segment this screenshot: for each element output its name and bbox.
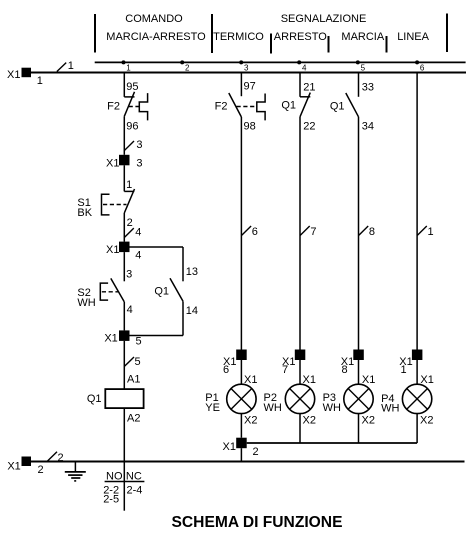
svg-text:Q1: Q1 [330,101,345,113]
header separator bar 6 [446,14,448,53]
svg-text:2: 2 [253,446,259,458]
wire [299,413,301,443]
svg-text:3: 3 [136,139,142,151]
lamp P4 WH [402,384,431,413]
pushbutton S1 (NC, BK) [124,190,134,192]
bus junction dot 1 [122,60,126,64]
wire [358,73,360,97]
wire coil to bottom line [123,408,125,461]
svg-text:2: 2 [127,217,133,229]
bus junction dot 4 [297,60,301,64]
wire [123,165,125,191]
svg-text:8: 8 [342,364,348,376]
svg-text:X2: X2 [420,414,433,426]
svg-text:3: 3 [136,157,142,169]
terminal X1:6 [236,350,247,361]
svg-text:1: 1 [37,75,43,87]
header separator bar 5 [386,36,388,53]
svg-text:4: 4 [135,227,141,239]
wire [240,413,242,438]
wire number slash 8 [359,226,369,235]
wire number slash 6 [242,226,252,235]
svg-text:X1: X1 [106,157,119,169]
svg-text:X2: X2 [362,414,375,426]
svg-text:SCHEMA DI FUNZIONE: SCHEMA DI FUNZIONE [172,514,343,531]
wire [299,360,301,385]
svg-text:Q1: Q1 [281,100,296,112]
lamp return connector line [247,442,417,444]
svg-text:SEGNALAZIONE: SEGNALAZIONE [281,13,367,25]
svg-text:2: 2 [58,452,64,464]
svg-text:3: 3 [126,269,132,281]
svg-text:5: 5 [136,336,142,348]
bus junction dot 3 [239,60,243,64]
svg-text:X2: X2 [244,414,257,426]
S1 actuator bracket [102,194,110,215]
wire [299,73,301,97]
bus line top [95,61,466,63]
svg-text:6: 6 [420,63,425,72]
svg-text:2-5: 2-5 [103,494,119,506]
svg-text:1: 1 [401,364,407,376]
svg-text:1: 1 [68,60,74,72]
svg-text:13: 13 [186,266,198,278]
wire [240,117,242,350]
svg-text:NC: NC [126,470,142,482]
branch to Q1 13-14 [130,246,184,248]
header separator bar 2 [211,14,213,53]
svg-text:6: 6 [223,364,229,376]
F2 dashed actuator link [129,106,140,108]
svg-text:34: 34 [362,121,374,133]
bus junction dot 2 [180,60,184,64]
F2 dashed actuator link [237,106,257,108]
svg-text:1: 1 [126,63,131,72]
wire col1 from main line [123,73,125,97]
svg-text:X1: X1 [104,333,117,345]
contact F2 95-96 (NC thermal) [124,96,134,98]
terminal X1:1 (lamp) [412,350,423,361]
svg-text:X1: X1 [362,374,375,386]
svg-text:X1: X1 [244,374,257,386]
svg-text:33: 33 [362,82,374,94]
lamp P3 WH [344,384,373,413]
svg-text:WH: WH [323,402,341,414]
svg-text:21: 21 [303,82,315,94]
wire [123,252,125,281]
wire number slash 2 on bottom line [48,452,58,461]
coil Q1 A1-A2 [105,389,143,408]
svg-text:X1: X1 [223,441,236,453]
svg-text:MARCIA: MARCIA [341,31,384,43]
svg-text:Q1: Q1 [154,286,169,298]
wire below X1:5 [123,341,125,389]
svg-text:96: 96 [126,121,138,133]
svg-text:97: 97 [244,81,256,93]
svg-text:95: 95 [126,81,138,93]
svg-text:X1: X1 [7,69,20,81]
svg-text:F2: F2 [107,101,120,113]
svg-text:1: 1 [126,179,132,191]
wire [123,116,125,155]
wire [123,213,125,242]
svg-text:5: 5 [361,63,366,72]
svg-text:COMANDO: COMANDO [125,13,183,25]
svg-text:98: 98 [244,121,256,133]
terminal X1:2 bottom left [22,457,32,467]
svg-text:A2: A2 [127,412,140,424]
svg-text:2: 2 [38,464,44,476]
header separator bar 3 [270,34,272,54]
terminal X1:2 (lamp return) [236,438,247,449]
wire number slash 1 [417,226,427,235]
svg-text:4: 4 [302,63,307,72]
svg-text:NO: NO [106,470,123,482]
svg-text:WH: WH [381,402,399,414]
svg-text:F2: F2 [215,101,228,113]
ground symbol [74,463,76,472]
bus junction dot 6 [415,60,419,64]
svg-text:14: 14 [186,305,198,317]
wire number slash 4 [124,228,134,237]
terminal X1:8 [353,350,364,361]
svg-text:WH: WH [77,297,95,309]
svg-text:MARCIA-ARRESTO: MARCIA-ARRESTO [106,31,206,43]
wire [416,413,418,443]
header separator bar 1 [94,14,96,53]
header separator bar 4 [328,36,330,53]
svg-text:X2: X2 [303,414,316,426]
terminal X1:5 [119,330,130,341]
svg-text:6: 6 [252,226,258,238]
svg-text:X1: X1 [106,244,119,256]
contact Q1 33-34 (NO) [346,93,359,117]
wire [358,360,360,385]
F2 thermal release symbol (col3) [257,94,265,121]
terminal X1:1 top left [22,68,32,78]
svg-text:2-4: 2-4 [127,485,143,497]
svg-text:7: 7 [310,226,316,238]
wire number slash 1 on main line [57,63,66,72]
terminal X1:7 [295,350,306,361]
wire [240,73,242,97]
lamp P2 WH [285,384,314,413]
pushbutton S2 (NO, WH) [111,278,125,302]
svg-text:3: 3 [244,63,249,72]
svg-text:ARRESTO: ARRESTO [274,31,327,43]
svg-text:X1: X1 [420,374,433,386]
svg-text:X1: X1 [7,461,20,473]
svg-text:BK: BK [77,207,92,219]
wire [416,73,418,350]
lamp P1 YE [227,384,256,413]
wire branch return [182,301,184,335]
svg-text:22: 22 [303,121,315,133]
wire [416,360,418,385]
terminal X1:4 [119,242,130,253]
terminal X1:3 [119,155,130,166]
F2 thermal release symbol [139,93,147,120]
svg-text:2: 2 [185,63,190,72]
svg-text:A1: A1 [127,374,140,386]
S2 actuator bracket [100,283,108,300]
bus junction dot 5 [356,60,360,64]
svg-text:LINEA: LINEA [397,31,429,43]
contact Q1 13-14 (NO) [170,278,183,301]
main supply line L1 [31,72,466,74]
wire number slash 3 [125,141,135,150]
wire [299,117,301,350]
svg-text:X1: X1 [303,374,316,386]
svg-text:8: 8 [369,226,375,238]
contact Q1 21-22 (NC) [300,96,310,98]
wire [358,413,360,443]
wire [240,360,242,385]
svg-text:5: 5 [135,356,141,368]
svg-text:WH: WH [264,402,282,414]
svg-text:1: 1 [428,226,434,238]
svg-text:7: 7 [282,364,288,376]
svg-text:YE: YE [205,402,220,414]
contact F2 97-98 (NO thermal) [229,93,242,117]
wire number slash 7 [300,226,310,235]
wire number slash 5 [125,357,135,366]
svg-text:Q1: Q1 [87,393,102,405]
svg-text:TERMICO: TERMICO [213,31,264,43]
svg-text:4: 4 [135,250,141,262]
bottom return line [31,461,465,463]
svg-text:4: 4 [127,304,133,316]
wire to bottom line [240,448,242,461]
wire [123,302,125,331]
wire [358,117,360,350]
